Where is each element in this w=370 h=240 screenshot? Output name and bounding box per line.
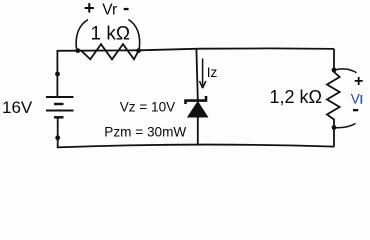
- battery short plate 2: [54, 103, 64, 105]
- node resistor R right: [136, 48, 141, 53]
- wire right branch lower: [333, 128, 335, 147]
- zener diode DZ cathode bar: [186, 96, 207, 104]
- node load bottom: [332, 125, 337, 130]
- node resistor R left: [75, 48, 80, 53]
- node battery - terminal: [55, 135, 60, 140]
- arc Vr left parenthesis: [76, 20, 88, 49]
- wire zener branch upper: [196, 49, 197, 100]
- label minus load: [353, 109, 358, 111]
- arc Vl top hook: [335, 69, 357, 73]
- node load top: [332, 68, 337, 73]
- current arrow Iz: [200, 59, 206, 89]
- resistor R 1k zigzag: [78, 44, 139, 59]
- wire bottom rail: [57, 145, 335, 148]
- battery long plate 3: [46, 110, 74, 112]
- svg-text:1 kΩ: 1 kΩ: [91, 23, 131, 44]
- wire right branch upper: [333, 49, 335, 70]
- arc Vr right parenthesis: [129, 20, 140, 49]
- resistor RL 1.2k zigzag: [327, 70, 340, 128]
- svg-text:1,2 kΩ: 1,2 kΩ: [270, 87, 322, 107]
- svg-text:Iz: Iz: [207, 65, 218, 80]
- label minus of Vr: [124, 8, 129, 10]
- battery short plate 4: [54, 116, 64, 118]
- wire zener branch lower: [197, 116, 199, 145]
- svg-text:Vz = 10V: Vz = 10V: [120, 99, 176, 114]
- wire battery bottom stub: [57, 117, 59, 147]
- svg-text:Pzm = 30mW: Pzm = 30mW: [104, 125, 186, 140]
- wire left vertical (source branch): [56, 50, 58, 97]
- label Vl subscript bar: [361, 95, 363, 104]
- svg-text:V: V: [351, 91, 360, 106]
- battery B1 16V plate long top: [46, 96, 74, 98]
- zener diode DZ anode triangle: [188, 102, 208, 117]
- svg-text:+: +: [354, 73, 363, 90]
- node battery + terminal: [55, 72, 60, 77]
- arc Vl bottom hook: [335, 124, 356, 128]
- wire top rail: [57, 48, 335, 50]
- svg-text:16V: 16V: [2, 98, 33, 117]
